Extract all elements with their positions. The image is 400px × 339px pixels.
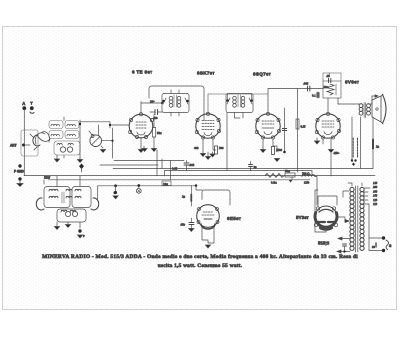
hook capacitor left (36, 198, 44, 210)
wire main bus y175.6 (24, 175, 375, 177)
band switch assembly boxes (44, 187, 91, 223)
svg-text:11W: 11W (44, 176, 51, 180)
svg-text:6SQ7GT: 6SQ7GT (253, 72, 271, 77)
junction dots on buses (137, 184, 140, 187)
resistor below V3 (272, 147, 283, 155)
capacitor 2u at 6E5 (182, 186, 191, 207)
svg-text:.05т: .05т (180, 223, 186, 227)
tube V2 6SK7 (195, 112, 220, 139)
ground below V3 (260, 148, 265, 153)
wire osc box verticals (64, 117, 80, 158)
svg-text:515;3: 515;3 (318, 241, 330, 246)
wire bus y160.5 (114, 160, 184, 162)
svg-text:6V6GT: 6V6GT (345, 80, 359, 85)
wire vertical x227 (226, 113, 228, 171)
tube V4 6V6 (315, 112, 340, 139)
power transformer T1 primary winding (350, 187, 354, 250)
tube V3 6SQ7 (255, 112, 280, 139)
wire bottom transformer (315, 190, 326, 232)
wire bus y185.5 (98, 186, 196, 199)
svg-text:6 TE 8GT: 6 TE 8GT (132, 70, 152, 75)
svg-text:6SK7GT: 6SK7GT (197, 71, 215, 76)
cathode resistor V2 (194, 146, 224, 154)
svg-text:700 Ω: 700 Ω (302, 172, 310, 176)
svg-text:A: A (22, 101, 25, 106)
wire speaker/output down (352, 117, 361, 169)
node A terminal (22, 101, 26, 176)
capacitor on x284.5 (282, 129, 286, 131)
wire transformer top (348, 183, 362, 186)
capacitor .005 top (303, 82, 310, 92)
junction dot x284.5 (283, 151, 286, 154)
svg-text:0.05: 0.05 (172, 167, 178, 171)
tube V1 6TE8 (129, 113, 154, 139)
variable capacitor C-tune (89, 125, 101, 147)
wire IF1 to V2 (171, 90, 179, 116)
transformer tap wires (364, 188, 370, 236)
svg-text:.005: .005 (189, 163, 195, 167)
cathode V4 (323, 139, 331, 149)
wire vertical x170.5 (170, 161, 172, 180)
resistor 0.5M (265, 173, 284, 184)
junction dot osc top (79, 123, 81, 125)
svg-text:125: 125 (373, 199, 378, 202)
small resistor box on bus (162, 181, 171, 186)
hook capacitor right (91, 198, 99, 210)
svg-text:2500: 2500 (276, 148, 283, 152)
junction dots under output transformer (351, 159, 353, 161)
wire bus y165 (100, 164, 158, 166)
ground mid V2 area (210, 152, 215, 157)
svg-text:2μ: 2μ (254, 165, 258, 169)
wire vertical x297.5 volume line (297, 89, 299, 172)
svg-text:uscita 1,5 watt. Consumo 55 wa: uscita 1,5 watt. Consumo 55 watt. (158, 263, 243, 269)
box around IF1 (149, 86, 204, 120)
antenna coil box L1 (21, 130, 38, 156)
svg-text:6E5GT: 6E5GT (227, 216, 241, 221)
wire V4 top (318, 92, 338, 113)
resistor 0.25 in volume line (296, 119, 306, 129)
tube V5 6E5 (197, 205, 220, 229)
svg-text:MINERVA RADIO - Mod. 515/3 ADD: MINERVA RADIO - Mod. 515/3 ADDA - Onde m… (42, 254, 358, 260)
wires below V2 (203, 139, 216, 156)
rotated mains labels (353, 138, 357, 157)
svg-text:110: 110 (373, 203, 378, 206)
hook capacitor upper-left (33, 135, 40, 146)
junction dot (161, 102, 163, 104)
svg-text:20m: 20m (324, 86, 330, 89)
capacitor 0.1 left of V4 (312, 93, 319, 98)
wires band switch (57, 176, 80, 228)
antenna section boxes (49, 121, 80, 156)
ground below V2 (206, 157, 211, 160)
svg-text:.005: .005 (303, 82, 309, 86)
transformer tap labels (373, 182, 378, 206)
svg-text:50м: 50м (285, 169, 290, 173)
wire bus y170.5 (165, 171, 313, 177)
svg-text:5Y3GT: 5Y3GT (296, 215, 309, 220)
tone resistor box (323, 81, 341, 98)
svg-text:145: 145 (373, 182, 378, 185)
capacitor .05 left of 6E5 (180, 218, 194, 228)
svg-text:140: 140 (373, 195, 378, 198)
arrow into transformer (345, 220, 349, 223)
junction dot with ground x115 (113, 184, 118, 198)
antenna coil crossing windings (30, 132, 50, 150)
node T terminal (30, 101, 34, 114)
wire vertical x284.5 (284, 108, 286, 152)
capacitor .005 mid (172, 161, 195, 171)
arrow to speaker (372, 95, 378, 97)
potentiometer 50m (285, 169, 295, 182)
ground below V4 (328, 150, 333, 153)
ground below V4 left (314, 138, 319, 144)
junction dot (109, 124, 111, 126)
ground below cap (189, 229, 194, 232)
switch S (369, 236, 392, 252)
ground at x144 y150 (142, 146, 147, 152)
capacitor 0.1 near transformer bottom (343, 244, 347, 253)
node P terminal (77, 229, 85, 238)
wire main bus y168 (113, 168, 373, 170)
capacitor 2u mid (249, 162, 258, 171)
ground below V3 right (274, 159, 279, 162)
wires 5Y3 (318, 196, 337, 232)
ground below osc boxes (54, 155, 59, 162)
capacitor 2u right (373, 117, 380, 169)
ground band switch 1 (54, 227, 59, 230)
svg-text:Ω50: Ω50 (304, 181, 310, 185)
svg-text:10м: 10м (163, 182, 168, 186)
svg-text:300: 300 (219, 146, 224, 150)
ground below 6E5 (205, 245, 210, 248)
svg-text:20+: 20+ (150, 100, 155, 104)
wire tuning cap to V1 (102, 128, 113, 158)
svg-text:F GND: F GND (14, 170, 25, 174)
svg-text:2μ: 2μ (376, 145, 380, 149)
capacitor near V1 top (150, 100, 163, 121)
svg-text:160: 160 (373, 190, 378, 193)
svg-text:200: 200 (373, 186, 378, 189)
wires below 6E5 (202, 227, 214, 244)
wire top bus from V3 to tone box (268, 89, 323, 95)
wire V1 grid cap up (141, 102, 162, 113)
ground below tuning cap (100, 146, 105, 153)
wire choke to 5Y3 (315, 177, 317, 206)
speaker (372, 94, 386, 124)
osc grid resistor right of V1 (151, 115, 161, 152)
ground 2 below osc boxes (77, 158, 82, 163)
wire transformer HV to 5Y3 (343, 191, 349, 197)
svg-text:-250-: -250- (333, 151, 340, 155)
power transformer T1 secondary winding (360, 187, 364, 250)
svg-text:0.5м: 0.5м (271, 181, 277, 185)
junction dot (111, 140, 113, 142)
svg-text:50м: 50м (157, 132, 162, 135)
coils in band switch box1 (49, 189, 81, 216)
ground band switch 2 (65, 225, 70, 228)
IF transformer 1 (162, 94, 189, 113)
heater winding arrows left (338, 237, 350, 240)
svg-text:0,25: 0,25 (301, 126, 306, 129)
label 11 on bus (44, 176, 51, 180)
capacitor .05 above box (323, 73, 341, 83)
trimmer circles in bottom box (60, 147, 65, 152)
ground below F GND (17, 181, 23, 187)
fuse diamond below ground 2 (79, 164, 84, 170)
wire 6E5 connections (196, 186, 230, 206)
svg-text:2μ: 2μ (182, 195, 186, 199)
lamp on heater line (136, 186, 141, 194)
label 30 (372, 243, 376, 249)
IF transformer 2 (226, 94, 253, 113)
svg-text:0.1: 0.1 (312, 94, 316, 98)
wires below V3 (263, 139, 277, 152)
wire bus y180 (44, 180, 310, 184)
tube V6 5Y3 (314, 206, 337, 230)
output transformer T2 (359, 103, 370, 118)
ground V2 left (200, 152, 205, 157)
wire bus over IF2 (208, 94, 268, 114)
svg-text:ANT: ANT (10, 144, 17, 148)
wire v at x157 x162 (157, 150, 162, 176)
svg-text:400: 400 (194, 146, 199, 150)
wire V3 top to bus (267, 94, 269, 113)
wire V4 plate to output transformer (338, 96, 372, 104)
wire IF2 coils down (235, 113, 244, 119)
wire top-left to V1 (80, 122, 129, 128)
coil bumps in boxes (51, 124, 75, 145)
power transformer T1 core (356, 186, 358, 252)
box right of 6E5 (202, 190, 230, 200)
node F GND terminal (14, 164, 25, 180)
node ANT junction (10, 144, 30, 148)
ground below V1 (138, 138, 143, 153)
choke 700ohm (302, 172, 315, 185)
